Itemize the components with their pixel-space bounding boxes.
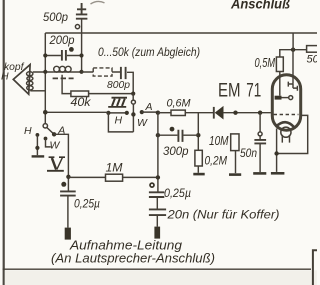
grid dashed line (274, 114, 299, 116)
svg-text:W: W (137, 117, 148, 129)
wire 500p lead down through bus (81, 19, 83, 72)
wire 200p branch (45, 55, 81, 57)
svg-text:(An Lautsprecher-Anschluß): (An Lautsprecher-Anschluß) (51, 250, 215, 265)
resistor R 1M (68, 176, 105, 178)
wire A2 down (54, 134, 68, 191)
contact A2 (52, 132, 56, 136)
tube EM71 envelope (272, 75, 300, 130)
adjustment dot (69, 47, 74, 52)
ground 10M (229, 173, 241, 176)
svg-text:40k: 40k (71, 97, 92, 109)
svg-text:0,2M: 0,2M (205, 154, 228, 168)
resistor R 50k (cut) (307, 46, 319, 53)
cut handwriting fragment top (91, 1, 105, 4)
svg-text:1M: 1M (106, 162, 123, 174)
svg-text:W: W (50, 139, 61, 151)
wire H loop (108, 113, 133, 132)
heater pins (282, 135, 289, 143)
capacitor C 200p (62, 50, 66, 61)
contact W (131, 112, 135, 116)
resistor R 0,5M (276, 57, 283, 72)
connector circle (75, 25, 79, 29)
adjustment dot (150, 183, 154, 187)
wire A to node (142, 111, 158, 113)
node coil right (79, 70, 83, 74)
diode D1 (213, 107, 215, 119)
tape head winding (27, 72, 33, 76)
svg-text:A: A (145, 101, 153, 113)
node 200p right (79, 53, 83, 57)
svg-text:200p: 200p (49, 35, 76, 47)
ground 0,2M (193, 173, 204, 176)
ground cathode (271, 172, 285, 175)
svg-text:800p: 800p (107, 79, 130, 91)
node 50n (258, 111, 262, 115)
svg-text:0,25µ: 0,25µ (164, 188, 191, 200)
resistor R 0,2M (195, 150, 202, 166)
wire head bottom (30, 90, 45, 92)
contact bar H (108, 112, 126, 114)
terminal lug right (154, 227, 160, 239)
scan left border (3, 0, 5, 285)
capacitor C 0,25µ left (60, 191, 76, 195)
trimmer R 0...50k dashed (82, 71, 121, 73)
capacitor C 0,25µ right (149, 192, 164, 197)
svg-text:50k: 50k (307, 53, 318, 65)
node cathode (274, 151, 278, 155)
wire coil tap down (62, 75, 71, 94)
wire 800p to switch (127, 72, 133, 93)
wire anode feed (280, 50, 307, 57)
svg-text:H: H (24, 125, 32, 137)
wire 0,2M vertical (197, 113, 199, 151)
wire left vertical main (44, 33, 46, 124)
node 300p right (196, 133, 200, 137)
resistor R 10M (231, 134, 239, 151)
node record line left (66, 175, 70, 179)
wire grid column down (157, 113, 159, 192)
contact H2 post (36, 133, 40, 137)
wire top bus A (45, 32, 317, 34)
wire head to coil (bus B) (33, 71, 54, 73)
node 300p left (156, 133, 160, 137)
scan bottom rule (3, 268, 311, 270)
node 1M right (156, 175, 160, 179)
capacitor C 50n (259, 113, 261, 132)
switch S1 arm to W (132, 104, 134, 132)
adjustment dot (61, 182, 66, 187)
node grid feed (156, 111, 160, 115)
svg-text:71: 71 (246, 80, 261, 101)
tape head core triangle (13, 65, 30, 95)
node 10M (233, 111, 237, 115)
wire 300p link (158, 134, 198, 136)
node anode (291, 48, 295, 52)
svg-text:H: H (115, 114, 123, 126)
contact A (140, 110, 144, 114)
svg-text:0...50k (zum Abgleich): 0...50k (zum Abgleich) (98, 47, 200, 59)
switch S1 pivot (132, 94, 134, 101)
winding V label (49, 156, 65, 158)
node 200p left (43, 53, 47, 57)
triode anode plate (275, 96, 282, 100)
capacitor C 300p (178, 130, 182, 142)
svg-text:10M: 10M (209, 134, 229, 148)
capacitor C 20n (149, 209, 166, 215)
switch S2 arm (47, 128, 54, 135)
contact W2 post (44, 137, 48, 141)
svg-text:0,5M: 0,5M (255, 56, 276, 70)
svg-text:0,6M: 0,6M (167, 97, 192, 109)
wire bus to target (292, 33, 294, 50)
terminal bar of 500p (77, 3, 86, 14)
node coil left (43, 70, 47, 74)
wire main to H contact (45, 111, 108, 113)
wire bottom right stub (313, 250, 317, 285)
capacitor C 800p (121, 67, 126, 79)
resistor R 0,6M (158, 112, 171, 114)
svg-text:50n: 50n (240, 146, 257, 160)
switch S2 pivot (43, 124, 47, 128)
node main H (43, 110, 48, 115)
wire grid return loop (277, 115, 308, 153)
fluorescent screen arc (276, 122, 294, 127)
inductor L winding (54, 66, 60, 72)
node switch III top (131, 92, 135, 96)
winding III label (108, 98, 127, 107)
svg-text:EM: EM (218, 80, 241, 101)
wire cathode to ground (276, 129, 278, 172)
resistor R 40k (71, 91, 89, 97)
svg-text:300p: 300p (163, 144, 189, 158)
svg-text:500p: 500p (43, 12, 69, 24)
core dashed (53, 77, 74, 79)
svg-text:Anschluß: Anschluß (230, 0, 290, 12)
cathode circle (281, 127, 291, 137)
ground 50n (253, 172, 266, 175)
ground H2 (32, 155, 45, 157)
svg-text:20n (Nur für Koffer): 20n (Nur für Koffer) (166, 207, 279, 221)
target deflection electrodes (288, 82, 297, 91)
svg-text:H: H (1, 71, 9, 83)
terminal lug left (65, 228, 71, 240)
svg-text:0,25µ: 0,25µ (74, 198, 100, 210)
capacitor C 500p (76, 14, 88, 18)
